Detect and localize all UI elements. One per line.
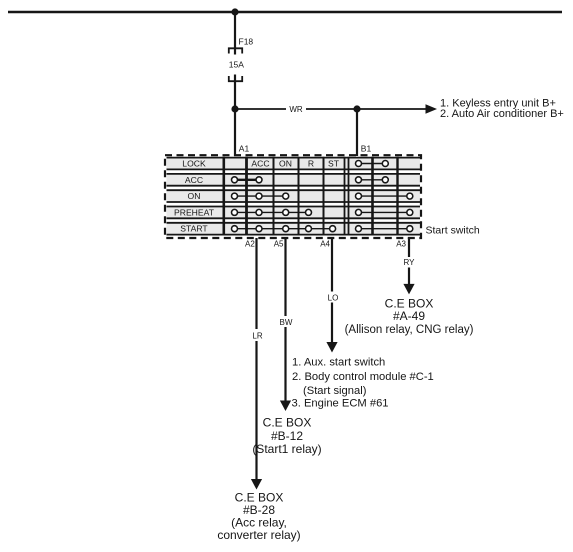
svg-text:LR: LR (252, 332, 262, 341)
svg-text:#A-49: #A-49 (393, 309, 425, 323)
svg-text:A5: A5 (274, 239, 284, 248)
svg-text:BW: BW (280, 318, 293, 327)
svg-text:(Start1 relay): (Start1 relay) (252, 442, 321, 456)
svg-text:C.E BOX: C.E BOX (263, 416, 312, 430)
svg-text:3. Engine ECM #61: 3. Engine ECM #61 (292, 397, 389, 409)
svg-text:ST: ST (328, 159, 340, 169)
svg-text:ON: ON (279, 159, 292, 169)
svg-text:LO: LO (328, 294, 339, 303)
svg-text:PREHEAT: PREHEAT (174, 207, 215, 217)
svg-text:2. Body control module #C-1: 2. Body control module #C-1 (292, 371, 434, 383)
svg-text:B1: B1 (361, 144, 372, 154)
svg-text:ON: ON (188, 191, 201, 201)
svg-text:RY: RY (404, 258, 416, 267)
svg-text:A4: A4 (320, 239, 330, 248)
svg-text:START: START (180, 224, 208, 234)
svg-text:15A: 15A (229, 60, 244, 70)
svg-text:WR: WR (289, 105, 303, 114)
svg-text:1. Aux. start switch: 1. Aux. start switch (292, 357, 385, 369)
svg-text:2. Auto Air conditioner B+: 2. Auto Air conditioner B+ (440, 108, 564, 120)
svg-text:ACC: ACC (251, 159, 269, 169)
svg-text:A2: A2 (245, 239, 255, 248)
svg-text:A1: A1 (239, 144, 250, 154)
svg-text:R: R (308, 159, 314, 169)
svg-text:ACC: ACC (185, 175, 203, 185)
svg-text:Start switch: Start switch (426, 225, 480, 237)
svg-text:converter relay): converter relay) (217, 528, 300, 542)
svg-text:LOCK: LOCK (182, 159, 206, 169)
svg-text:(Start signal): (Start signal) (303, 385, 367, 397)
svg-text:(Allison relay, CNG relay): (Allison relay, CNG relay) (345, 324, 474, 336)
svg-text:F18: F18 (239, 37, 254, 47)
svg-text:A3: A3 (396, 239, 406, 248)
